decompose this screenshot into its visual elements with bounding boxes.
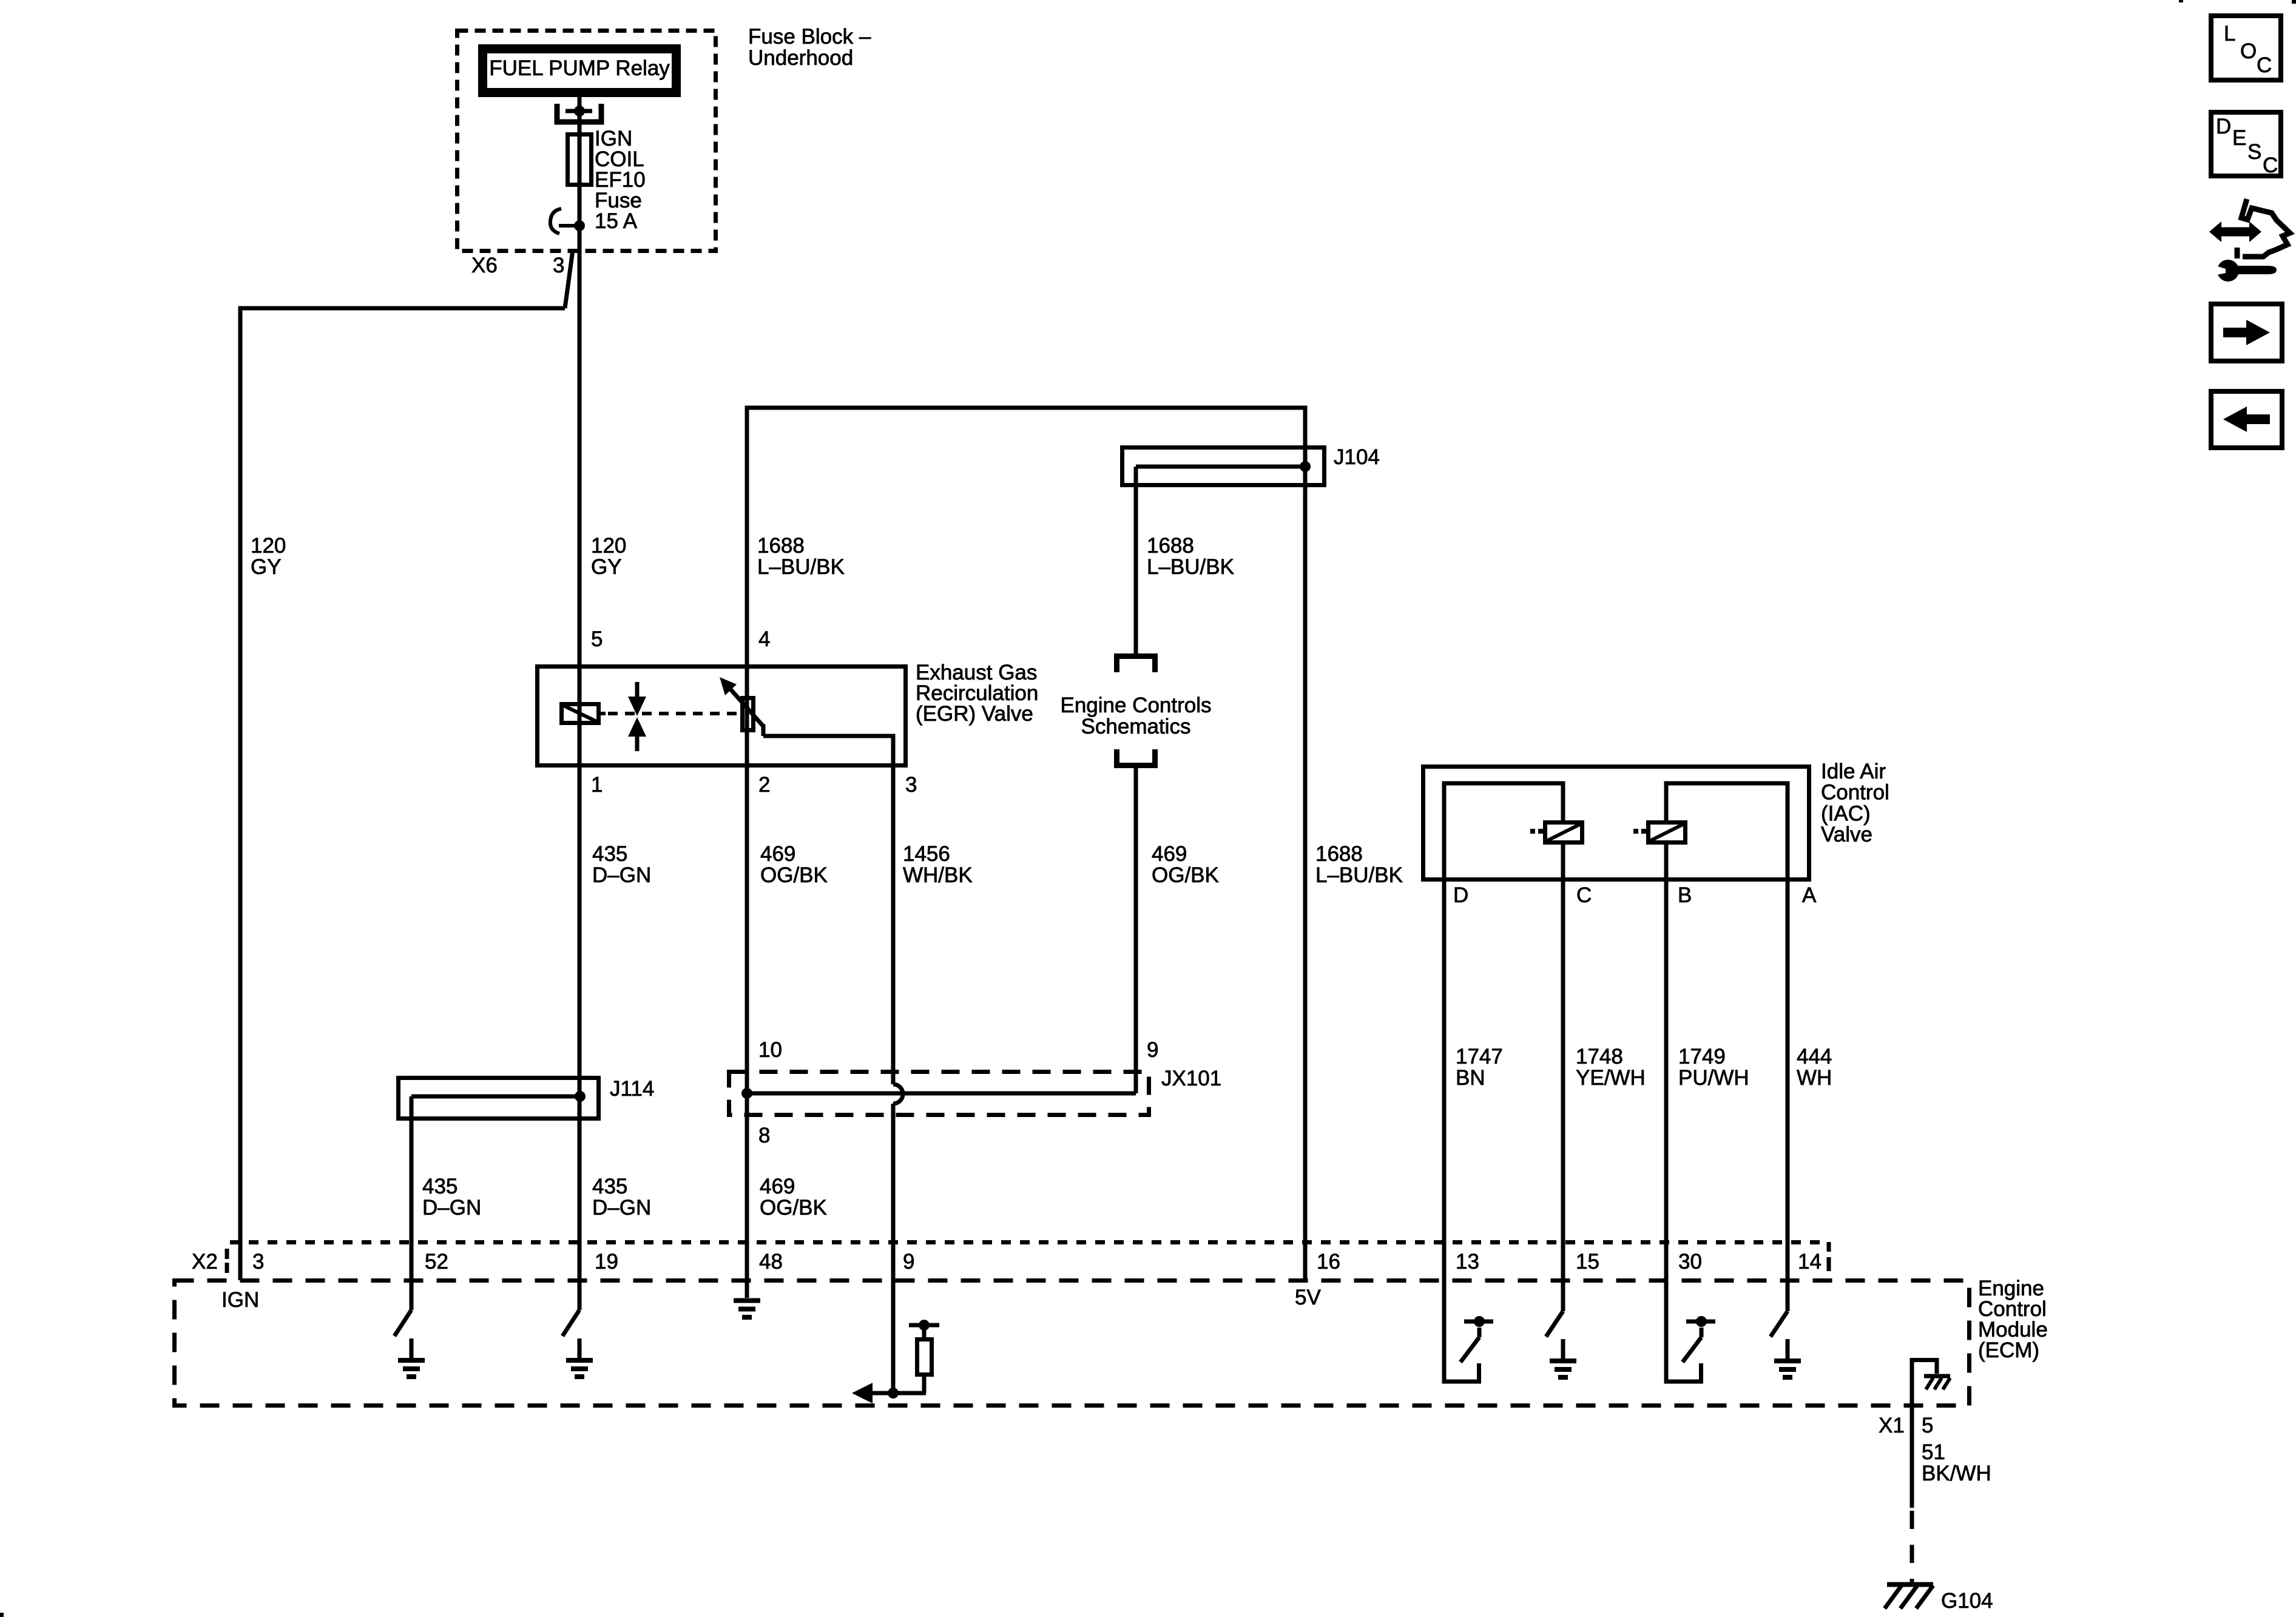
svg-text:D: D [1453,883,1468,907]
svg-text:8: 8 [758,1124,770,1147]
wire 1688 top horizontal [745,406,1306,410]
svg-text:Valve: Valve [1821,823,1872,846]
ground (pin 52) [410,1338,414,1358]
page edge speck bottom-left [0,1613,4,1617]
IAC valve box [1423,767,1809,880]
svg-text:D–GN: D–GN [592,1196,651,1220]
IAC winding 1 loop [1444,783,1563,882]
ground (pin 48) [745,1280,749,1298]
svg-text:L–BU/BK: L–BU/BK [1147,555,1234,579]
svg-text:2: 2 [758,773,770,797]
swap-part icon double arrow [2220,228,2250,237]
wrench icon [2217,260,2239,282]
svg-text:Underhood: Underhood [748,46,853,70]
svg-text:3: 3 [252,1250,264,1274]
connector X2 right tick [1827,1242,1831,1252]
svg-text:52: 52 [425,1250,448,1274]
svg-text:L–BU/BK: L–BU/BK [1315,863,1403,887]
driver contact bar pin 13 [1464,1320,1493,1324]
svg-text:G104: G104 [1941,1589,1993,1613]
svg-text:16: 16 [1317,1250,1340,1274]
svg-text:FUEL PUMP Relay: FUEL PUMP Relay [489,56,670,80]
splice pack JX101 dashed box [729,1072,1149,1115]
svg-text:YE/WH: YE/WH [1576,1066,1646,1090]
node: JX101 junction dot [741,1088,752,1099]
node: resistor top dot [919,1320,930,1331]
wire horizontal IGN branch [238,306,566,311]
swap-part icon hand outline [2241,199,2290,257]
wire 1456 below hop to ECM pin 9 [891,1104,896,1393]
wire 1688 vertical above EGR pin 4 [745,408,749,664]
ECM dashed box [175,1281,1970,1406]
svg-text:D–GN: D–GN [422,1196,481,1220]
svg-text:469: 469 [1152,842,1187,866]
svg-text:BK/WH: BK/WH [1922,1462,1991,1485]
wire 1688 branch down from J104 [1134,467,1138,653]
svg-text:4: 4 [758,627,770,651]
terminal bar [566,109,592,113]
svg-text:3: 3 [905,773,917,797]
prev page arrow box [2211,391,2282,448]
IAC solenoid 1 diagonal [1547,824,1581,841]
wire 120 GY fuse to EGR pin 5 [578,250,582,664]
svg-text:X6: X6 [471,254,498,277]
wire hop on 1456 over JX101 wire [893,1084,903,1104]
wire inside J114 [411,1095,580,1099]
svg-text:J114: J114 [610,1077,654,1101]
svg-text:GY: GY [251,555,282,579]
node: pin 13 driver dot [1474,1316,1485,1327]
wire 1749 PU/WH (B) [1664,882,1669,1382]
LOC icon box [2211,16,2281,80]
svg-text:1688: 1688 [1315,842,1363,866]
driver switch at pin 30 [1666,1280,1701,1382]
splice J104 connector box [1123,448,1325,485]
svg-text:E: E [2232,126,2246,150]
wire 1747 BN (D) [1442,882,1447,1382]
wire 469 OG/BK pin2 down [745,768,749,1093]
fusible element tick [559,224,575,228]
svg-text:435: 435 [592,1175,627,1198]
svg-text:PU/WH: PU/WH [1678,1066,1749,1090]
svg-text:(ECM): (ECM) [1978,1338,2039,1362]
wire 19 through J114 [578,1076,582,1310]
fuse block - underhood dashed box [458,31,716,251]
switch to ground at pin 19 [562,1310,579,1336]
splice J114 connector box [399,1078,599,1119]
svg-text:Engine Controls: Engine Controls [1060,694,1211,717]
resistor top bar [909,1323,939,1328]
svg-text:1688: 1688 [757,534,805,558]
wire 1748 YE/WH (C) [1561,882,1565,1311]
svg-text:Idle Air: Idle Air [1821,760,1886,783]
EGR wiper drop [761,724,766,737]
EGR wiper arrowhead [720,677,737,695]
wire 1456 WH/BK pin3 down [891,768,896,1084]
ground (pin 19) [578,1338,582,1358]
chassis ground in ECM [1924,1374,1950,1379]
svg-text:(EGR) Valve: (EGR) Valve [916,702,1033,726]
svg-text:1748: 1748 [1576,1045,1623,1068]
wire 444 WH (A) [1786,882,1790,1311]
svg-text:469: 469 [760,1175,795,1198]
svg-text:WH/BK: WH/BK [903,863,973,887]
svg-text:C: C [2257,53,2272,77]
DESC icon box [2211,112,2281,176]
svg-text:51: 51 [1922,1440,1945,1464]
EGR arrow upper [635,682,640,698]
wire 1688 right vertical to J104 [1303,406,1308,467]
wire pin4-pin2 through EGR [745,664,749,768]
signal arrow at pin 9 [868,1391,926,1396]
next page arrow [2223,328,2247,337]
node: terminal junction dot [574,106,585,116]
svg-text:OG/BK: OG/BK [760,863,828,887]
svg-text:5: 5 [1922,1414,1933,1437]
driver switch at pin 13 [1444,1280,1479,1382]
wire pin 3 inside EGR [891,734,896,768]
wire 52 branch from J114 [410,1096,414,1310]
connector X2 dotted line [230,1240,1822,1244]
svg-text:D: D [2216,115,2231,138]
resistor in ECM [922,1377,927,1393]
wire 469 OG/BK pin8 down [745,1093,749,1298]
EGR valve box [538,667,906,766]
node: J104 junction dot [1300,461,1311,472]
svg-text:L: L [2224,22,2235,46]
IAC solenoid 1 dash stub [1530,829,1535,834]
svg-text:Control: Control [1821,781,1889,805]
svg-text:Fuse Block –: Fuse Block – [748,25,871,49]
EGR internal horizontal to pin 3 [763,734,893,738]
ground (pin 14) [1786,1339,1790,1358]
svg-text:5: 5 [591,627,603,651]
wire 120 GY left vertical (IGN) [238,308,243,1280]
node: pin 9 junction dot [888,1388,899,1399]
wire relay to terminal [578,97,582,111]
svg-text:OG/BK: OG/BK [1152,863,1219,887]
svg-text:1749: 1749 [1678,1045,1726,1068]
svg-text:C: C [2263,154,2278,177]
node: pin 30 driver dot [1696,1316,1707,1327]
swap-part icon stub [2235,248,2240,258]
svg-text:15: 15 [1576,1250,1599,1274]
svg-text:10: 10 [758,1038,782,1062]
svg-text:15 A: 15 A [595,209,638,233]
svg-text:D–GN: D–GN [592,863,651,887]
EGR solenoid coil [562,704,599,723]
fuse EF10 body [568,135,592,185]
wire JX101 horizontal [747,1092,1136,1096]
EGR wiper arm [726,684,763,726]
svg-text:WH: WH [1797,1066,1832,1090]
prev page arrow [2246,414,2270,424]
svg-text:9: 9 [1147,1038,1158,1062]
relay K: FUEL PUMP Relay box [478,44,681,97]
wire 16 from J104 to ECM [1303,467,1308,1280]
wire 435 D-GN pin1 to J114 [578,768,582,1076]
svg-text:J104: J104 [1334,445,1380,469]
wire terminal to fuse [578,111,582,251]
svg-text:1747: 1747 [1456,1045,1503,1068]
svg-text:(IAC): (IAC) [1821,802,1871,825]
svg-text:GY: GY [591,555,622,579]
node: junction dot above X6 [574,220,585,231]
wire 51 BK/WH dashed [1910,1511,1914,1582]
wire pin5-pin1 through EGR [578,664,582,768]
svg-text:9: 9 [903,1250,914,1274]
svg-text:435: 435 [422,1175,458,1198]
terminal bracket under relay [557,104,601,122]
switch to ground at pin 14 [1771,1311,1788,1337]
svg-text:1456: 1456 [903,842,950,866]
svg-text:X1: X1 [1879,1414,1905,1437]
svg-text:O: O [2240,39,2257,63]
connector X2 left tick [225,1249,229,1259]
svg-text:A: A [1802,883,1817,907]
EGR coil diagonal [564,706,596,721]
svg-text:L–BU/BK: L–BU/BK [757,555,845,579]
wire slant from X6-3 [565,250,573,308]
IAC winding 1 lower wire [1561,845,1565,882]
next page arrow box [2211,304,2282,361]
IAC winding 2 lower wire [1664,845,1669,882]
switch to ground at pin 52 [394,1310,411,1336]
EGR potentiometer body [743,698,754,731]
svg-text:X2: X2 [192,1250,218,1274]
svg-text:S: S [2247,140,2261,164]
svg-text:14: 14 [1798,1250,1822,1274]
driver contact bar pin 30 [1686,1320,1715,1324]
EGR arrow lower [635,735,640,751]
switch to ground at pin 15 [1546,1311,1563,1337]
wire ECM internal ground (51) [1910,1358,1914,1508]
svg-text:444: 444 [1797,1045,1832,1068]
svg-text:30: 30 [1678,1250,1702,1274]
svg-text:BN: BN [1456,1066,1485,1090]
off-page stub bottom bracket [1117,749,1155,766]
svg-text:C: C [1576,883,1592,907]
svg-text:1688: 1688 [1147,534,1194,558]
svg-text:435: 435 [592,842,627,866]
wire inside J104 [1136,465,1305,469]
svg-text:B: B [1678,883,1692,907]
svg-text:469: 469 [760,842,795,866]
off-page stub top bracket [1117,656,1155,673]
svg-text:19: 19 [595,1250,618,1274]
svg-text:120: 120 [591,534,626,558]
EGR coil stub [601,712,606,715]
svg-text:5V: 5V [1295,1286,1321,1309]
svg-text:3: 3 [553,254,564,277]
fusible element curl [550,209,561,234]
IAC solenoid 2 dash stub [1633,829,1638,834]
svg-text:IGN: IGN [221,1288,259,1312]
IAC solenoid 1 [1545,823,1582,843]
node: J114 junction dot [575,1091,586,1102]
svg-text:13: 13 [1456,1250,1479,1274]
svg-text:1: 1 [591,773,603,797]
svg-text:120: 120 [251,534,286,558]
svg-text:Schematics: Schematics [1081,715,1191,738]
EGR dashed link [608,712,738,715]
svg-text:JX101: JX101 [1161,1067,1221,1090]
page edge speck top-left [2179,0,2183,2]
ground G104 symbol [1887,1582,1933,1587]
wire 469 from stub down [1134,766,1138,1093]
ground (pin 15) [1561,1339,1565,1358]
IAC winding 2 loop [1666,783,1788,882]
svg-text:OG/BK: OG/BK [760,1196,827,1220]
IAC solenoid 2 diagonal [1650,824,1684,841]
svg-text:48: 48 [759,1250,783,1274]
ECM internal ground hook [1912,1360,1937,1374]
IAC solenoid 2 [1649,823,1686,843]
page edge speck top-right [2292,0,2296,4]
